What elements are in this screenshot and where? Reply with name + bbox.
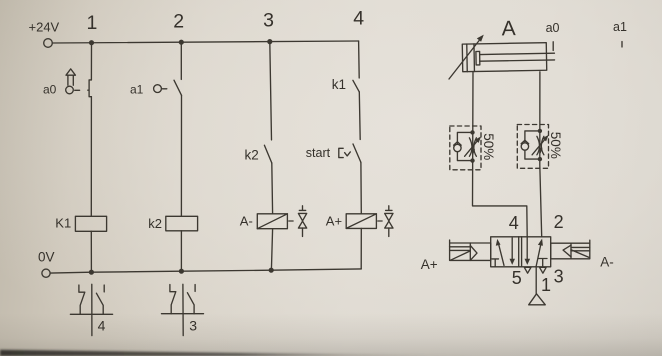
solenoid coil A-	[240, 214, 293, 229]
terminal +24V	[29, 20, 60, 48]
node rail-2	[179, 40, 184, 45]
svg-text:+24V: +24V	[29, 20, 60, 35]
contact a0 closed	[88, 80, 92, 97]
wire column2 lower	[180, 95, 182, 216]
svg-text:K1: K1	[55, 216, 71, 231]
position marker a1	[613, 20, 627, 47]
svg-text:k2: k2	[148, 216, 162, 231]
svg-text:0V: 0V	[38, 249, 55, 264]
limit switch a0 (actuated, roller with arrow)	[43, 69, 80, 97]
svg-text:a1: a1	[613, 20, 627, 34]
node 0V-3	[269, 268, 274, 273]
svg-text:k2: k2	[245, 148, 259, 163]
flow control valve right (one-way, 50%)	[517, 125, 563, 169]
wire column1 lower	[90, 97, 92, 217]
pneumatic line cylinder right port to valve port 2	[540, 72, 542, 237]
cylinder A	[462, 16, 555, 71]
contact cross-reference k2	[162, 284, 204, 335]
valve right box flow paths	[525, 237, 548, 267]
wire +24V rail	[52, 41, 358, 43]
svg-text:50%: 50%	[548, 132, 563, 159]
contact a1 NO	[174, 80, 182, 95]
node rail-1	[89, 40, 94, 45]
wire column4 middle	[358, 92, 361, 140]
svg-text:A-: A-	[240, 214, 253, 229]
wire 0V rail	[50, 269, 361, 273]
supply port 1	[529, 267, 546, 305]
svg-text:3: 3	[263, 9, 274, 31]
adjustment arrow on cylinder	[449, 35, 484, 79]
svg-text:4: 4	[98, 318, 106, 334]
pushbutton start	[306, 146, 351, 160]
svg-text:4: 4	[509, 213, 519, 233]
wire A+ to 0V corner	[360, 228, 362, 269]
limit switch a1 (roller)	[130, 83, 167, 97]
contact k1 NO	[332, 77, 360, 92]
svg-text:A+: A+	[421, 257, 438, 272]
svg-text:a0: a0	[43, 83, 57, 97]
valve glyph for A-	[298, 206, 306, 237]
svg-text:1: 1	[87, 12, 98, 34]
wire k2 to 0V	[180, 231, 182, 271]
svg-text:1: 1	[541, 275, 551, 295]
solenoid pilot actuator A+ (left)	[421, 240, 491, 272]
node 0V-2	[179, 269, 184, 274]
solenoid pilot actuator A- (right)	[551, 240, 614, 269]
terminal 0V	[38, 249, 55, 277]
svg-text:A: A	[502, 17, 516, 40]
svg-text:A-: A-	[600, 254, 614, 269]
svg-text:a0: a0	[546, 21, 560, 35]
svg-text:a1: a1	[130, 83, 144, 97]
wire A- to 0V	[271, 229, 272, 271]
svg-text:3: 3	[554, 267, 564, 287]
svg-text:2: 2	[554, 212, 564, 232]
svg-text:2: 2	[173, 11, 184, 33]
relay coil K1	[55, 216, 106, 232]
svg-text:start: start	[306, 146, 331, 160]
svg-text:4: 4	[353, 8, 364, 30]
directional valve 5/2 body	[491, 237, 551, 267]
svg-text:k1: k1	[332, 77, 346, 92]
exhaust port 3	[540, 267, 547, 273]
valve glyph for A+	[385, 206, 393, 237]
contact start NO	[353, 144, 361, 162]
wire K1 to 0V	[90, 231, 92, 272]
svg-text:A+: A+	[326, 214, 342, 229]
relay coil k2	[148, 216, 197, 231]
exhaust port 5	[524, 267, 531, 273]
solenoid coil A+	[326, 214, 382, 229]
svg-text:5: 5	[512, 268, 522, 288]
wire column3 upper	[270, 42, 272, 140]
contact k2 NO	[245, 145, 272, 163]
wire column2 upper	[180, 42, 182, 79]
wire column3 middle	[271, 163, 274, 214]
position marker a0	[546, 21, 560, 51]
wire column4 lower	[360, 162, 362, 213]
wire column1 upper	[90, 43, 92, 80]
contact cross-reference K1	[70, 284, 112, 335]
flow control valve left (one-way, 50%)	[450, 126, 496, 170]
node 0V-1	[89, 270, 94, 275]
valve left box flow paths	[492, 238, 515, 267]
svg-text:3: 3	[189, 317, 197, 333]
node rail-3	[267, 39, 272, 44]
pneumatic line cylinder left port to valve port 4	[473, 72, 528, 237]
svg-text:50%: 50%	[481, 133, 496, 160]
wire column4 upper	[358, 41, 361, 78]
